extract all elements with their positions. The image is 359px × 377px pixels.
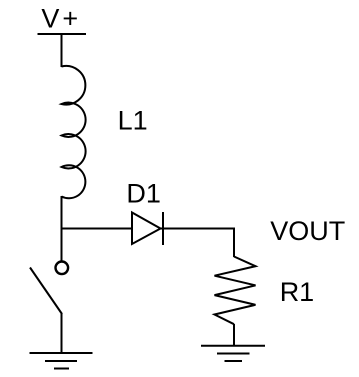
svg-text:VOUT: VOUT [270, 216, 345, 246]
wire D1 to VOUT corner [161, 228, 235, 230]
ground (right, under R1) [201, 346, 265, 361]
svg-text:R1: R1 [280, 277, 315, 307]
wire VOUT corner down to R1 [233, 228, 235, 258]
wire V+ to L1 [61, 34, 63, 67]
power flag V+ [38, 33, 87, 35]
svg-text:L1: L1 [118, 105, 148, 135]
inductor L1 [62, 66, 86, 198]
switch contact circle [56, 262, 69, 275]
svg-text:V+: V+ [41, 4, 81, 34]
ground (left, under switch) [30, 353, 93, 369]
wire switch to ground [61, 313, 63, 353]
node: wire to diode D1 [62, 228, 134, 230]
svg-text:D1: D1 [126, 178, 161, 208]
wire R1 to ground [233, 324, 235, 346]
wire L1 to node [61, 196, 63, 261]
diode D1 cathode bar [162, 212, 164, 245]
resistor R1 [215, 257, 256, 325]
diode D1 [132, 213, 161, 245]
switch lever [30, 268, 62, 315]
